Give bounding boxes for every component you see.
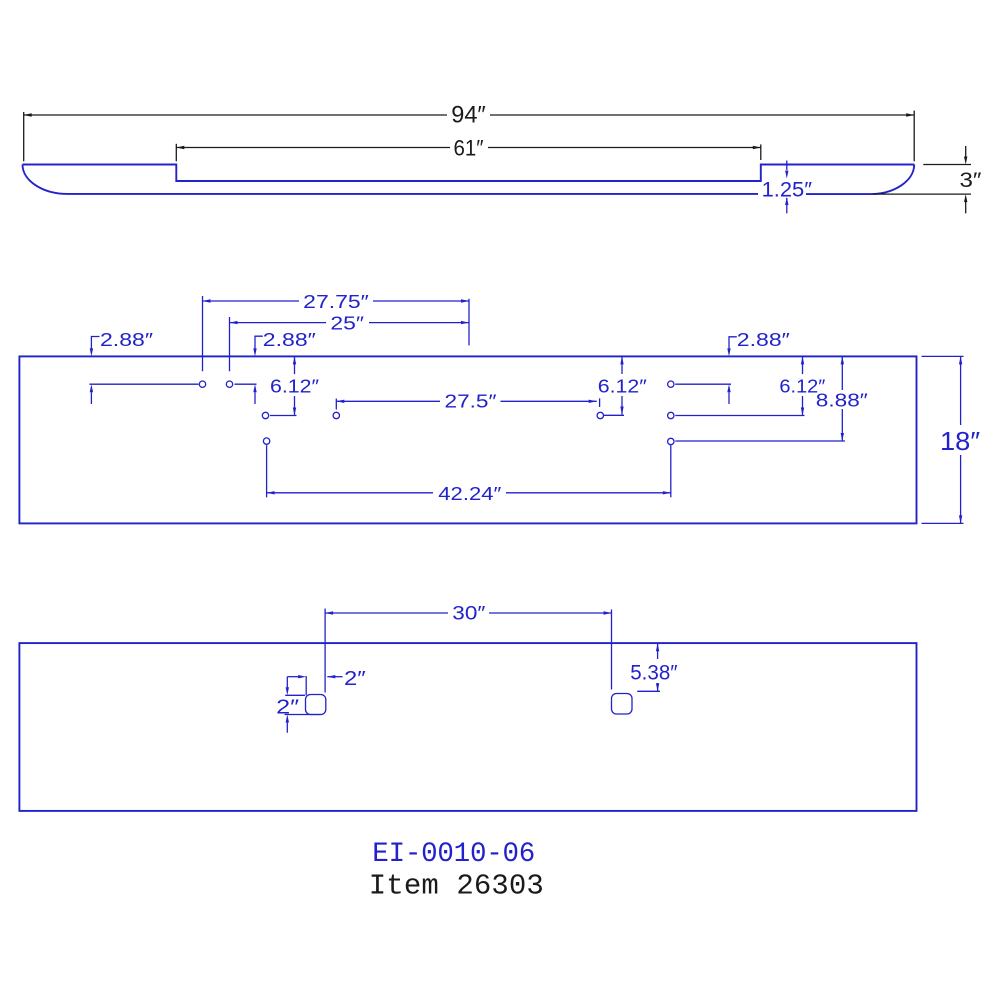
dim 27.75" (203, 296, 470, 371)
dim 2.88" left (89, 337, 198, 405)
svg-text:2″: 2″ (344, 668, 366, 690)
bottom view rectangle (19, 643, 916, 811)
front view rectangle (19, 356, 916, 523)
svg-text:8.88″: 8.88″ (816, 390, 869, 411)
svg-text:30″: 30″ (452, 603, 485, 625)
svg-text:1.25″: 1.25″ (762, 178, 813, 201)
dim 2" vertical (285, 677, 322, 733)
dim 5.38" (637, 643, 660, 691)
svg-text:27.75″: 27.75″ (303, 291, 369, 312)
dim 25" (230, 322, 470, 324)
dim 2" horizontal (287, 676, 342, 695)
dim 8.88" (675, 356, 845, 441)
svg-text:2.88″: 2.88″ (263, 329, 317, 350)
svg-text:2″: 2″ (276, 697, 299, 719)
svg-text:27.5″: 27.5″ (445, 391, 498, 412)
dim 2.88" right (675, 337, 737, 404)
dim 30" (325, 609, 611, 693)
svg-text:Item 26303: Item 26303 (369, 870, 544, 903)
svg-text:2.88″: 2.88″ (100, 329, 154, 350)
svg-text:EI-0010-06: EI-0010-06 (372, 839, 535, 870)
svg-text:6.12″: 6.12″ (598, 375, 648, 396)
dim 6.12" left (270, 356, 297, 415)
top view outline (23, 165, 915, 195)
dim 42.24" (267, 445, 671, 497)
svg-text:42.24″: 42.24″ (438, 483, 502, 504)
svg-text:6.12″: 6.12″ (270, 375, 320, 396)
dim 94" (24, 111, 915, 162)
svg-text:5.38″: 5.38″ (630, 662, 678, 685)
svg-text:61″: 61″ (454, 136, 484, 161)
dim 3" (873, 146, 971, 213)
svg-text:2.88″: 2.88″ (737, 329, 791, 350)
holes front view (199, 381, 674, 445)
svg-text:18″: 18″ (940, 426, 980, 456)
dim 6.12" right (675, 356, 804, 415)
dim 2.88" second (235, 336, 263, 404)
svg-text:94″: 94″ (451, 102, 486, 129)
dim 18" (922, 356, 964, 523)
dim 6.12" middle (604, 356, 624, 415)
svg-text:3″: 3″ (960, 168, 982, 192)
bottom view holes (306, 694, 633, 715)
svg-text:25″: 25″ (330, 313, 364, 334)
dim 27.5" (336, 398, 599, 409)
dim 61" (176, 144, 761, 162)
dim 1.25" (786, 161, 788, 214)
